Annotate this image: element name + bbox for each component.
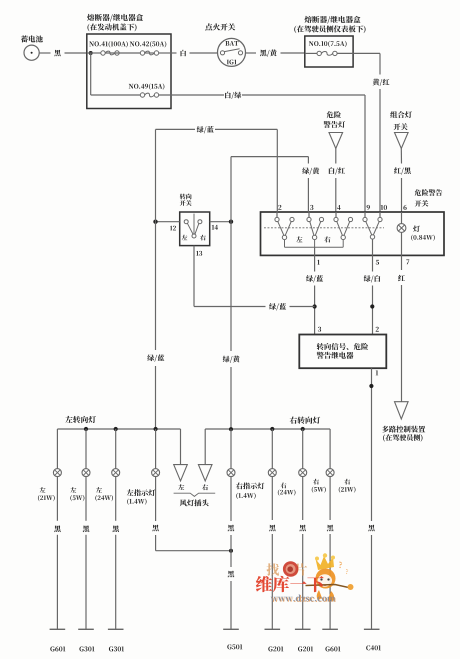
ground C401 terminal <box>364 629 381 650</box>
lamp 右 5W <box>299 429 326 493</box>
node indicator merge junction <box>229 549 233 553</box>
fuse NO.10 (7.5A) <box>305 41 353 56</box>
lamp 左 24W <box>95 429 119 501</box>
turn switch actuator <box>187 214 199 235</box>
label 左转向灯 <box>65 416 95 423</box>
wire lamp 左21W to ground G601 <box>50 477 66 652</box>
wire lamp 右21W to ground G601 <box>322 477 340 652</box>
switch coupling dashed line <box>264 227 384 229</box>
lamp 灯 (0.84W) in hazard switch <box>397 212 435 255</box>
relay pin 3 label <box>318 327 321 332</box>
turn signal / hazard relay box <box>299 335 386 369</box>
label 左 (turn switch) <box>182 235 188 240</box>
wire lamp 右24W to ground G201 <box>265 477 284 652</box>
node pin1/relay junction <box>313 304 317 308</box>
wire combination switch to pin 6, red/black <box>394 149 411 213</box>
wire left feed green/blue vertical <box>147 129 164 429</box>
label 右转向灯 <box>290 417 320 424</box>
connector 右 (风灯插头) <box>198 429 212 490</box>
wire green/yellow horizontal to pin 3 <box>231 157 319 212</box>
fuse NO.41 (100A) <box>89 41 128 55</box>
label 熔断器/继电器盒 (engine box header) <box>87 14 143 22</box>
lamp 左 5W <box>70 429 90 501</box>
fuse NO.49 (15A) <box>129 83 165 97</box>
node color-change on relay output <box>369 384 373 388</box>
wire hazard light to pin 4, white/red <box>329 149 345 213</box>
wire ignition to fuse box NO.10, black/yellow <box>246 49 305 56</box>
left turn lamp bus <box>57 428 180 430</box>
label 右 (turn switch) <box>200 235 206 241</box>
watermark dzsc logo <box>256 553 354 602</box>
relay pin 2 label <box>376 327 379 332</box>
wire green/blue horizontal to pin 2 <box>156 126 278 212</box>
fuse NO.42 (50A) <box>130 41 167 55</box>
wire fuse NO.10 to hazard switch pin 10, yellow/red <box>353 53 389 212</box>
pin 9 label <box>367 205 370 210</box>
wire fuse box to ignition switch, white <box>171 50 218 57</box>
node pin 12 junction <box>153 220 157 224</box>
lamp 右 21W <box>326 429 355 493</box>
node junction battery feed <box>89 51 93 55</box>
switch common bus to pin 1 <box>285 240 344 256</box>
pin stub wires <box>277 212 380 217</box>
node pin 14 junction <box>229 220 233 224</box>
pin 7 label <box>406 259 409 264</box>
wire pin 1 to relay pin 3, green/blue <box>306 255 323 334</box>
switch contacts upper row <box>275 217 382 221</box>
ignition switch 点火开关 <box>205 23 245 66</box>
battery 蓄电池 <box>21 35 43 60</box>
label 左 (hazard switch) <box>296 236 302 242</box>
pin 14 wire and label <box>210 222 231 230</box>
wire fuse row 1 <box>87 52 171 54</box>
node left bus junctions <box>84 427 158 431</box>
lamp 左指示灯 1.4W <box>127 429 160 505</box>
connector to hazard warning light 危险警告灯 <box>324 111 346 148</box>
switch blades <box>278 221 380 235</box>
connector to combination light switch 组合灯开关 <box>390 111 412 148</box>
wire relay pin 1 to C401, black <box>368 368 375 629</box>
pin 13 wire and label <box>194 246 202 307</box>
turn signal switch box 转向开关 <box>180 194 210 246</box>
wire 右指示灯 to ground G501, black <box>223 477 242 650</box>
wire lamp 左5W to ground G301 <box>78 477 94 652</box>
wire lamp 左24W to ground G301 <box>108 477 124 652</box>
turn switch contacts <box>184 220 202 238</box>
switch contacts lower row <box>282 235 374 240</box>
wire lamp 右5W to ground G201 <box>295 477 313 652</box>
node color-change on pin5 wire <box>370 304 374 308</box>
wire battery to fuse box NO.41, black <box>39 50 87 57</box>
label (在驾驶员侧仪表板下) <box>294 25 365 33</box>
wire 左指示灯 to merge, black <box>152 477 231 551</box>
pin 2 label <box>278 205 281 210</box>
pin 6 label <box>403 205 406 210</box>
pin 5 label <box>376 260 379 265</box>
pin 3 label <box>310 205 313 210</box>
connector to multiplex control unit 多路控制装置 <box>382 402 425 442</box>
wire pin 7 to multiplex unit, red <box>398 255 405 401</box>
pin 4 label <box>337 205 340 210</box>
wire fuse NO.49 to hazard switch pin 9, white/green <box>159 92 365 212</box>
label (在发动机盖下) <box>87 23 136 31</box>
wire right feed green/yellow vertical <box>223 157 240 430</box>
relay pin 1 label <box>376 370 378 375</box>
wire contact to pin 5 <box>372 239 374 255</box>
pin 10 label <box>381 205 387 210</box>
wire turn switch pin 13 to relay, green/blue <box>194 303 315 310</box>
lamp 右指示灯 1.4W <box>227 429 264 499</box>
label 风灯插头 with brace <box>174 493 216 506</box>
right turn lamp bus <box>205 428 330 430</box>
connector 左 (风灯插头) <box>174 429 188 490</box>
node right bus junctions <box>229 427 305 431</box>
label 右 (hazard switch) <box>324 236 330 242</box>
lamp 右 24W <box>268 429 295 496</box>
pin 12 wire and label <box>156 222 180 231</box>
fuse/relay box (engine compartment) outline <box>87 34 171 109</box>
pin 1 label <box>317 260 319 265</box>
wire pin 5 to relay pin 2, green/white <box>364 255 380 334</box>
wire branch to fuse NO.49 <box>91 53 141 95</box>
hazard warning switch box 危险警告开关 <box>261 189 445 255</box>
lamp 左 21W <box>38 429 61 501</box>
fuse/relay box (dash) outline <box>305 36 353 67</box>
label 熔断器/继电器盒 (dash box header) <box>305 16 361 24</box>
